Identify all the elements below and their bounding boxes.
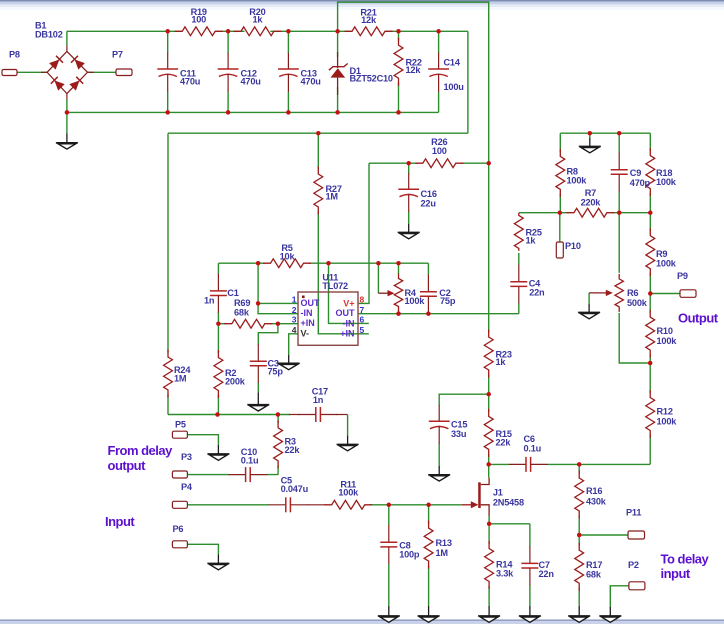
junction R10/R6 node (648, 361, 653, 366)
svg-text:R10: R10 (657, 326, 673, 336)
port P5 (172, 420, 187, 439)
svg-text:100k: 100k (405, 296, 426, 306)
wire mid rail y=133 (168, 132, 468, 134)
svg-text:P7: P7 (112, 50, 123, 60)
wire P2 to ground (610, 586, 629, 607)
svg-text:500k: 500k (627, 298, 648, 308)
port P11 (626, 508, 645, 540)
wire C16 top lead (408, 163, 410, 173)
zener diode D1 BZT52C10 (329, 52, 393, 95)
svg-text:1k: 1k (252, 15, 263, 25)
net label output (line 2) (108, 458, 147, 473)
svg-text:+IN: +IN (340, 329, 354, 339)
wire R12 column (649, 363, 651, 464)
svg-text:22u: 22u (421, 199, 436, 209)
svg-text:33u: 33u (451, 429, 466, 439)
wire R4 wiper drop (377, 263, 379, 293)
leads of C17 (dark red) (289, 414, 348, 416)
svg-text:3: 3 (292, 315, 297, 325)
svg-text:J1: J1 (493, 488, 503, 498)
svg-text:P6: P6 (173, 524, 184, 534)
svg-text:+IN: +IN (301, 318, 315, 328)
wire bridge ground stub (66, 112, 68, 133)
net label To delay (line 1) (661, 552, 710, 567)
wire pin4 to ground (289, 334, 298, 355)
svg-text:68k: 68k (586, 570, 602, 580)
wire R9 column (649, 213, 651, 294)
port P2 (628, 560, 645, 590)
wire bridge bottom lead (66, 99, 68, 112)
wire C7 column (529, 524, 531, 606)
wire R13 column (428, 505, 430, 606)
svg-text:22k: 22k (285, 445, 301, 455)
net label Input (105, 514, 135, 529)
svg-text:P10: P10 (565, 241, 581, 251)
U11 pin name OUT (7) (336, 308, 356, 318)
U11 pin name V- (4) (301, 329, 310, 339)
U11 pin 6 (360, 315, 365, 325)
ground top-right rail (579, 138, 601, 153)
svg-text:100: 100 (191, 15, 206, 25)
capacitor C10 (228, 447, 267, 482)
net label From delay (line 1) (108, 443, 174, 458)
junction C15 node (486, 392, 491, 397)
junctions on R5 line (256, 261, 401, 266)
capacitor C17 (299, 387, 338, 422)
svg-text:7: 7 (360, 305, 365, 315)
svg-text:100k: 100k (338, 488, 359, 498)
op-amp U11 TL072 (298, 272, 358, 345)
wire input line P4-C5-R11-gate (187, 504, 462, 506)
wire C8 column (388, 505, 390, 606)
wire P3/C10/R3 line (187, 474, 278, 476)
wire C15 bottom lead (438, 444, 440, 467)
svg-text:P3: P3 (181, 452, 192, 462)
svg-text:R9: R9 (656, 249, 667, 259)
U11 pin name -IN (2) (301, 308, 313, 318)
capacitor C15 (429, 405, 468, 444)
U11 pin name OUT (1) (301, 298, 321, 308)
svg-text:DB102: DB102 (35, 30, 63, 40)
svg-text:C9: C9 (630, 168, 641, 178)
resistor R16 (575, 471, 607, 519)
svg-text:1k: 1k (496, 357, 507, 367)
svg-text:C15: C15 (451, 420, 467, 430)
svg-text:Output: Output (678, 311, 719, 326)
svg-text:100p: 100p (399, 550, 420, 560)
resistor R8 (556, 149, 587, 197)
svg-text:100: 100 (432, 146, 447, 156)
wire V+ long vertical / R23 / R15 column (488, 163, 490, 478)
ground below R14 (478, 606, 500, 622)
svg-text:22k: 22k (496, 438, 512, 448)
port P4 (172, 482, 193, 508)
wire R14 column (488, 524, 490, 606)
resistor R18 (646, 148, 677, 196)
wire C4/R25 column (519, 213, 560, 314)
wire R6 column (619, 213, 650, 363)
resistor R15 (484, 409, 512, 457)
svg-text:75p: 75p (268, 367, 284, 377)
wire pin3 node to C3 (258, 324, 278, 345)
svg-text:100k: 100k (656, 259, 677, 269)
wire right loop from bus1 down to mid rail (467, 31, 469, 133)
capacitor C3 (250, 344, 284, 383)
wire R18 column (649, 133, 651, 213)
U11 pin 7 (360, 305, 365, 315)
resistor R21 (345, 8, 393, 36)
wire R7 line (560, 212, 651, 214)
svg-text:R13: R13 (436, 538, 452, 548)
junctions on bus1 (165, 29, 440, 34)
U11 pin name +IN (3) (301, 318, 315, 328)
transistor J1 2N5458 (462, 478, 524, 516)
wire pin6 drop (329, 263, 369, 323)
ground P5 (207, 445, 229, 460)
svg-text:R69: R69 (234, 298, 250, 308)
capacitor C4 (510, 265, 545, 304)
svg-text:Input: Input (105, 514, 135, 529)
port P7 (112, 50, 132, 76)
svg-text:P9: P9 (677, 271, 688, 281)
wire J1 source node (489, 516, 530, 524)
svg-text:1M: 1M (326, 192, 339, 202)
ground right of C17 (337, 415, 359, 451)
svg-text:P4: P4 (181, 482, 193, 492)
resistor R25 1k (514, 213, 541, 251)
junction R16/P11 node (577, 533, 582, 538)
wire C3 bottom lead (257, 383, 259, 393)
svg-text:C16: C16 (421, 189, 437, 199)
U11 pin 4 (292, 325, 297, 335)
svg-text:C1: C1 (227, 288, 238, 298)
wire P9 line (650, 293, 680, 295)
resistor R2 (214, 350, 246, 398)
svg-text:R6: R6 (627, 288, 638, 298)
svg-text:200k: 200k (225, 377, 246, 387)
resistor R13 (424, 521, 452, 569)
svg-text:V-: V- (301, 329, 310, 339)
svg-text:From delay: From delay (108, 443, 174, 458)
svg-text:P8: P8 (9, 50, 20, 60)
svg-text:C6: C6 (524, 434, 535, 444)
capacitor C14 (428, 53, 463, 92)
svg-text:5: 5 (360, 325, 365, 335)
svg-text:100k: 100k (657, 417, 678, 427)
svg-text:12k: 12k (361, 15, 377, 25)
wire R22 column (398, 31, 400, 112)
net label Output (678, 311, 719, 326)
resistor R17 (575, 543, 603, 591)
capacitor C2 (420, 275, 456, 314)
capacitor C13 (278, 53, 321, 92)
wire C2 column (427, 263, 429, 275)
svg-text:input: input (661, 566, 691, 581)
U11 pin 1 (292, 295, 297, 305)
port P8 (2, 50, 20, 76)
ground below C3 (247, 392, 269, 411)
junctions R69 line (216, 321, 280, 326)
resistor R19 (175, 7, 223, 36)
wire R16 column (578, 464, 580, 535)
junctions R7 line (558, 210, 653, 215)
lead R4 bottom (dark red) (398, 311, 400, 314)
svg-text:R7: R7 (585, 188, 596, 198)
capacitor C5 (269, 475, 308, 512)
wire C12 column (227, 31, 229, 112)
resistor R7 (566, 188, 614, 217)
svg-text:-IN: -IN (343, 319, 355, 329)
port P10 (556, 241, 581, 258)
ground below C16 (398, 224, 420, 239)
wire R5 line (218, 262, 428, 264)
svg-text:68k: 68k (234, 308, 250, 318)
lead C5 to R11 (dark red) (307, 504, 325, 506)
wire P6 to ground (187, 544, 218, 554)
svg-text:V+: V+ (343, 299, 354, 309)
wire C11 column (167, 31, 169, 112)
svg-text:1M: 1M (436, 548, 449, 558)
resistor R20 (233, 7, 281, 36)
svg-text:430k: 430k (586, 497, 607, 507)
resistor R69 (224, 298, 272, 328)
svg-text:75p: 75p (440, 296, 456, 306)
ground below C7 (519, 606, 541, 622)
wire C9 column (618, 133, 620, 213)
svg-text:1n: 1n (313, 395, 324, 405)
wire left long vertical (167, 133, 169, 414)
junction P9 node (648, 291, 653, 296)
bridge rectifier B1 DB102 (35, 21, 94, 100)
wire C6 line (489, 463, 651, 465)
U11 pin 3 (292, 315, 297, 325)
svg-text:22n: 22n (539, 569, 555, 579)
junctions on bus2 (65, 110, 401, 115)
U11 pin 5 (360, 325, 365, 335)
svg-text:470u: 470u (241, 77, 261, 87)
ground R6 wiper (578, 304, 600, 319)
wire D1 column (337, 31, 339, 112)
junction J1 source node (487, 522, 492, 527)
capacitor C16 (398, 173, 437, 212)
svg-text:100k: 100k (657, 336, 678, 346)
wire R17 column (578, 535, 580, 606)
resistor R22 (394, 38, 422, 86)
ground below C15 (428, 466, 450, 481)
resistor R3 (274, 420, 301, 468)
wire R69 line to pin3 (218, 323, 298, 325)
svg-text:8: 8 (360, 295, 365, 305)
resistor R24 (164, 350, 192, 398)
capacitor C9 (611, 153, 651, 192)
capacitor C7 (521, 546, 554, 585)
ground below R17 (568, 606, 590, 622)
svg-text:1M: 1M (174, 374, 187, 384)
svg-text:470p: 470p (630, 178, 651, 188)
svg-text:P2: P2 (628, 560, 639, 570)
resistor R23 (484, 330, 512, 378)
capacitor C8 (380, 525, 420, 564)
port P3 (172, 452, 192, 478)
resistor R14 (485, 541, 514, 589)
resistor R11 (324, 480, 372, 510)
wire bridge to P7 (88, 71, 117, 73)
ground U11 pin4 (278, 355, 300, 370)
svg-text:100k: 100k (656, 177, 677, 187)
resistor R9 (646, 228, 677, 276)
wire node-A rail y=414.5 (168, 414, 290, 416)
net label input (line 2) (661, 566, 691, 581)
svg-text:10k: 10k (280, 252, 296, 262)
wire V+ to pin8 (358, 163, 369, 303)
svg-text:C14: C14 (444, 58, 461, 68)
svg-text:0.047u: 0.047u (281, 484, 308, 494)
svg-text:470u: 470u (180, 77, 200, 87)
svg-text:P5: P5 (175, 420, 186, 430)
svg-text:100u: 100u (444, 82, 464, 92)
wire C15 line (439, 394, 489, 405)
svg-text:100k: 100k (567, 176, 588, 186)
junctions on R26 line (406, 161, 491, 166)
wire pins1-2 link (258, 263, 298, 314)
wire R8 column (559, 133, 561, 213)
wire R4 top (398, 263, 400, 274)
U11 pin name V+ (8) (343, 299, 354, 309)
U11 pin 8 (360, 295, 365, 305)
svg-text:22n: 22n (529, 288, 545, 298)
potentiometer R6 500k (589, 274, 648, 312)
svg-text:BZT52C10: BZT52C10 (350, 74, 393, 84)
svg-text:output: output (108, 458, 147, 473)
U11 pin name -IN (6) (343, 319, 355, 329)
wire P5 to ground (187, 435, 218, 445)
capacitor C1 (204, 274, 239, 313)
svg-text:R17: R17 (586, 560, 602, 570)
ground P2 (599, 607, 621, 622)
junction R27 top (316, 131, 321, 136)
top window border band (0, 0, 724, 10)
junction pin1 node (256, 301, 261, 306)
capacitor C6 (509, 434, 548, 472)
capacitor C11 (157, 53, 200, 92)
svg-text:220k: 220k (581, 198, 602, 208)
wire pin1 stub (258, 302, 298, 304)
port P6 (172, 524, 187, 548)
potentiometer R4 100k (378, 274, 425, 312)
svg-text:OUT: OUT (336, 308, 356, 318)
wire C13 column (287, 31, 289, 112)
svg-text:2: 2 (292, 305, 297, 315)
ground P6 (207, 555, 229, 570)
wire top-right ground stub (589, 133, 591, 138)
ground below bridge (56, 133, 78, 149)
svg-text:0.1u: 0.1u (241, 456, 259, 466)
bottom scrollbar band (0, 620, 724, 624)
svg-text:0.1u: 0.1u (524, 444, 542, 454)
resistor R5 (263, 243, 311, 268)
wire 0V bottom bus (bus2) (67, 111, 439, 113)
wire R10 column (649, 294, 651, 364)
svg-text:6: 6 (360, 315, 365, 325)
svg-text:1: 1 (292, 295, 297, 305)
wire C1/R2 column (217, 263, 219, 414)
junctions right rail y=133 (588, 131, 622, 136)
junctions C6 line (486, 462, 581, 467)
svg-text:2N5458: 2N5458 (493, 498, 524, 508)
wire pin7 output line (358, 313, 519, 315)
junctions gate line (387, 503, 431, 508)
wire bridge top lead (66, 31, 68, 46)
resistor R10 (646, 310, 677, 358)
wire right top rail y=133 (560, 132, 650, 134)
svg-text:12k: 12k (406, 65, 422, 75)
wire P11 line (579, 534, 628, 536)
U11 pin 2 (292, 305, 297, 315)
wire P8 to bridge (17, 71, 47, 73)
wire P10 drop (559, 213, 561, 242)
wire C16 bottom lead (408, 212, 410, 225)
svg-text:470u: 470u (301, 77, 321, 87)
U11 pin name +IN (5) (340, 329, 354, 339)
svg-text:R16: R16 (586, 486, 602, 496)
junctions node-A rail (215, 412, 280, 417)
wire top route from D1 node to V+ column (338, 2, 489, 163)
svg-text:1k: 1k (526, 236, 537, 246)
wire R6 wiper ground drop (588, 293, 590, 304)
svg-text:R12: R12 (657, 407, 673, 417)
svg-text:TL072: TL072 (322, 281, 348, 291)
resistor R27 (314, 167, 342, 215)
resistor R12 (646, 390, 677, 438)
wire R27 column to pin5 (318, 133, 369, 334)
wire R3 column (277, 415, 279, 475)
svg-text:3.3k: 3.3k (496, 569, 514, 579)
wire +V top bus (bus1) (67, 30, 468, 32)
ground below R13 (418, 606, 440, 622)
svg-text:To delay: To delay (661, 552, 710, 567)
capacitor C12 (218, 53, 261, 92)
wire C14 column (438, 31, 440, 112)
junctions pin7 line (396, 311, 430, 316)
wire R26 line (369, 162, 489, 164)
svg-text:OUT: OUT (301, 298, 321, 308)
svg-text:P11: P11 (626, 508, 641, 518)
resistor R26 (415, 137, 463, 168)
ground below C8 (378, 606, 400, 622)
port P9 (677, 271, 696, 297)
svg-text:-IN: -IN (301, 308, 313, 318)
svg-text:4: 4 (292, 325, 297, 335)
svg-text:1n: 1n (204, 295, 215, 305)
